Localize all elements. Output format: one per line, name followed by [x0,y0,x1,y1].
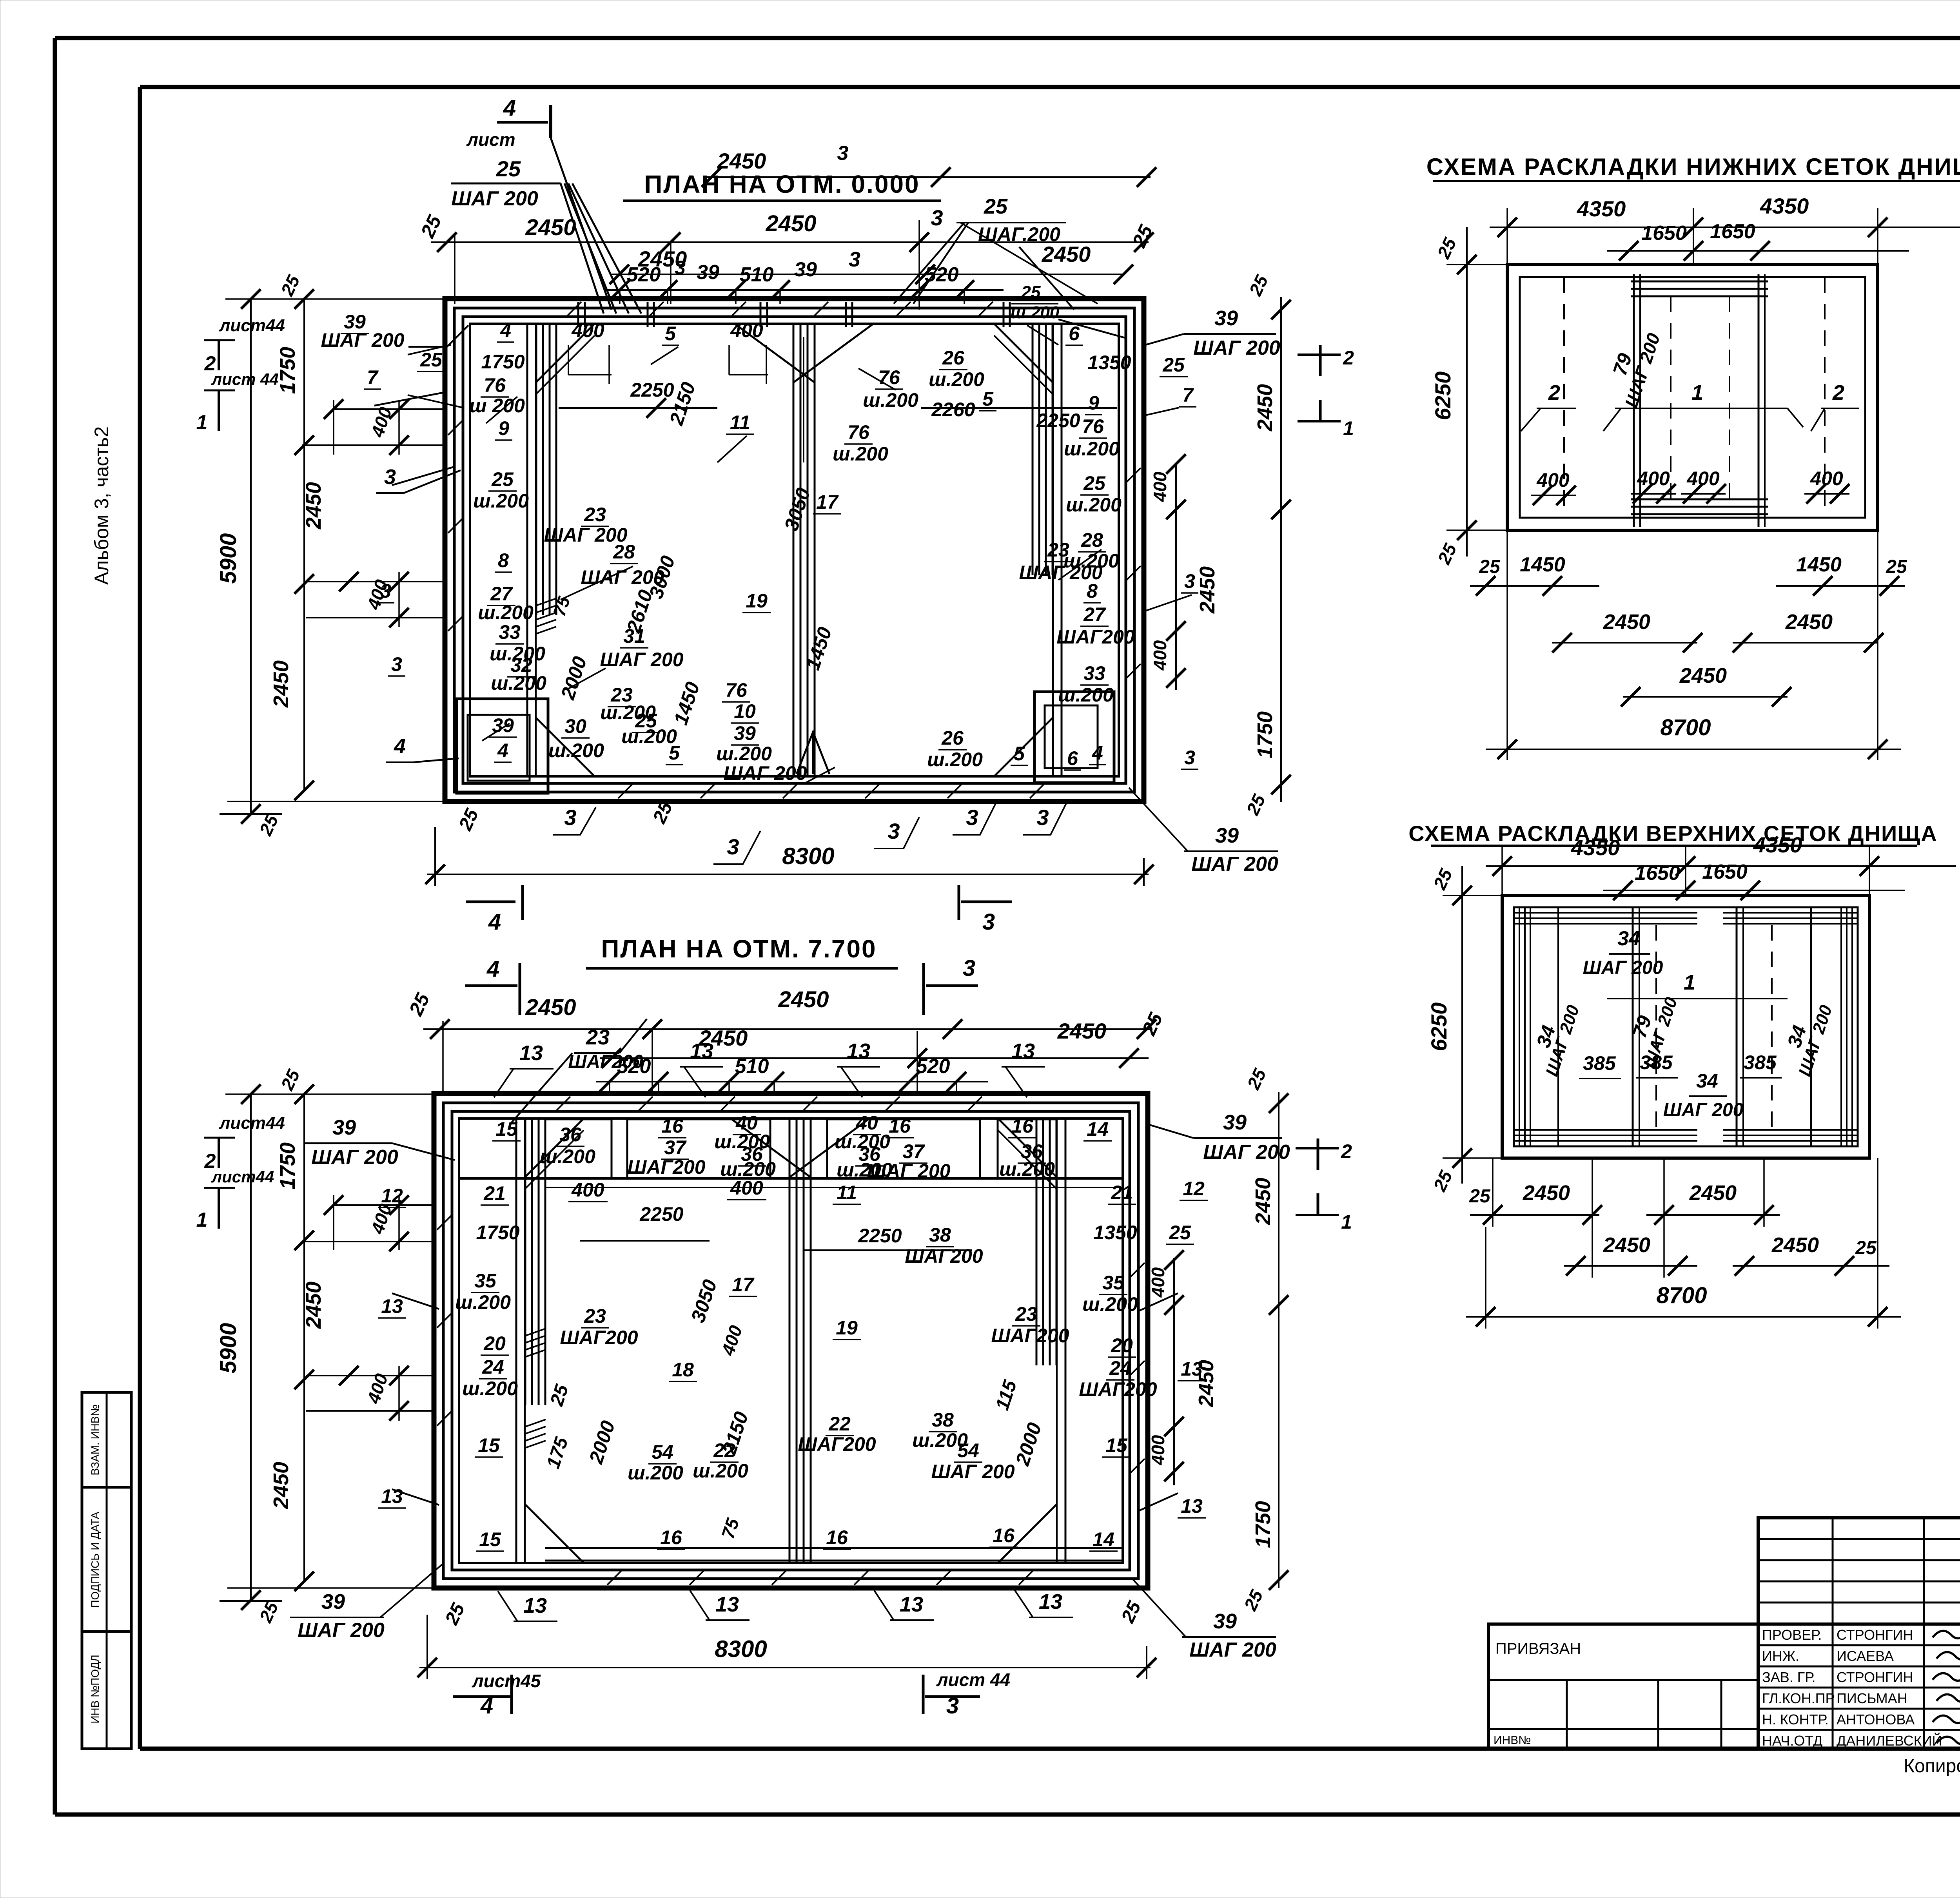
svg-text:ш.200: ш.200 [1058,684,1114,706]
scheme2 outer mesh [1502,896,1869,1158]
plan2 right interior wall [1036,1118,1056,1365]
svg-text:38: 38 [932,1409,954,1431]
svg-text:1750: 1750 [476,1222,519,1244]
svg-text:ш.200: ш.200 [1011,303,1060,322]
svg-text:5: 5 [1014,743,1025,765]
svg-text:1: 1 [1341,1211,1352,1233]
svg-text:5900: 5900 [216,1323,241,1373]
svg-text:1650: 1650 [1702,861,1748,883]
left attachment table [1488,1624,1758,1749]
svg-text:400: 400 [1686,468,1720,489]
svg-text:13: 13 [519,1041,543,1065]
plan1 dim row top B [610,221,1157,284]
svg-text:ш.200: ш.200 [693,1460,748,1482]
plan1 label 25 шаг.200 top-right [956,195,1098,304]
svg-text:ШАГ 200: ШАГ 200 [723,762,807,784]
svg-text:3: 3 [887,819,900,843]
svg-text:1750: 1750 [276,347,299,394]
plan2 overall height dim 5900 [216,1084,433,1626]
svg-text:2450: 2450 [1689,1181,1737,1205]
plan2 overall width dim 8300 [417,1615,1156,1679]
svg-text:25: 25 [491,468,514,490]
svg-text:25: 25 [1169,1222,1191,1244]
svg-text:2250: 2250 [639,1203,683,1225]
svg-text:5: 5 [665,323,676,344]
svg-text:2450: 2450 [1057,1019,1107,1043]
svg-text:2450: 2450 [269,1462,293,1509]
scheme2 mesh border bars [1514,907,1858,1146]
svg-text:23: 23 [584,1305,606,1327]
plan1 right dim chains [1150,272,1291,819]
svg-text:5900: 5900 [216,533,241,584]
svg-text:38: 38 [929,1224,951,1246]
svg-text:ИНЖ.: ИНЖ. [1762,1648,1799,1664]
signatures squiggles [1933,1627,1960,1744]
svg-text:ВЗАМ. ИНВ№: ВЗАМ. ИНВ№ [89,1404,101,1475]
svg-text:1: 1 [1343,417,1354,439]
plan1 left dim chain inner [269,272,325,800]
svg-text:2450: 2450 [1196,566,1219,614]
svg-text:26: 26 [942,347,965,369]
svg-text:ш.200: ш.200 [716,743,772,765]
svg-text:лист44: лист44 [211,1167,274,1186]
plan1 dim extension verticals top [455,220,964,310]
svg-text:2450: 2450 [1785,610,1833,634]
svg-text:39: 39 [1223,1111,1247,1134]
svg-text:12: 12 [1183,1178,1205,1200]
svg-text:4: 4 [500,319,511,341]
plan1 bottom-left room [457,699,548,793]
svg-text:2450: 2450 [1679,664,1727,687]
svg-text:15: 15 [479,1528,501,1550]
plan2 bottom labels row [441,1588,1145,1628]
plan2 left sheet reference marks [196,1113,285,1231]
svg-text:15: 15 [478,1434,500,1456]
plan2 rotated dims interior [543,1241,1046,1541]
svg-text:8700: 8700 [1656,1283,1707,1308]
svg-text:385: 385 [1583,1052,1616,1074]
plan1 label 39 шаг200 top-right [1058,306,1280,359]
svg-text:лист44: лист44 [219,316,285,335]
svg-text:24: 24 [1109,1357,1131,1379]
svg-text:24: 24 [482,1356,504,1378]
svg-text:ш.200: ш.200 [548,740,604,761]
svg-text:25: 25 [1855,1238,1877,1258]
svg-text:13: 13 [1181,1358,1203,1380]
plan1 dim row top C [604,248,1060,322]
svg-text:3: 3 [849,248,860,271]
svg-text:2250: 2250 [858,1225,902,1247]
plan2 left interior wall [525,1118,545,1405]
plan2 extra leaders [392,1019,1178,1511]
plan2 central wall [789,1118,811,1563]
left margin stamp boxes [82,1392,131,1749]
svg-text:15: 15 [495,1118,518,1140]
svg-text:ШАГ 200: ШАГ 200 [1019,562,1102,584]
svg-text:ШАГ 200: ШАГ 200 [1583,957,1663,978]
plan1 overall width dim 8300 [425,827,1154,886]
svg-text:54: 54 [652,1441,673,1463]
svg-text:5: 5 [982,388,994,410]
title block upper grid [1758,1518,1960,1624]
svg-text:20: 20 [1111,1334,1133,1356]
svg-text:1650: 1650 [1710,220,1755,243]
svg-text:12: 12 [381,1185,403,1207]
svg-text:2450: 2450 [1523,1181,1570,1205]
svg-text:22: 22 [828,1413,851,1435]
svg-text:ш.200: ш.200 [833,443,888,465]
svg-text:25: 25 [1886,557,1907,577]
plan2 top corridor wall [459,1178,1123,1187]
svg-text:26: 26 [941,727,964,749]
svg-text:4350: 4350 [1760,194,1809,218]
plan1 extra leader fan top-right [894,223,1074,310]
svg-text:2250: 2250 [1036,410,1080,431]
svg-text:400: 400 [730,1177,763,1199]
svg-text:23: 23 [1015,1303,1037,1325]
svg-text:8700: 8700 [1660,715,1711,740]
svg-text:3: 3 [391,653,402,675]
svg-text:1750: 1750 [1251,1501,1275,1548]
svg-text:ш.200: ш.200 [491,672,546,694]
plan2 dim row top B [600,1009,1167,1068]
plan2 section marks 2-1 right [1296,1138,1352,1233]
svg-text:54: 54 [957,1439,979,1461]
svg-text:ШАГ200: ШАГ200 [560,1327,638,1349]
svg-text:ШАГ 200: ШАГ 200 [1193,337,1280,359]
scheme2 bottom dim rows [1469,1158,1889,1278]
svg-text:13: 13 [847,1039,870,1063]
svg-text:25: 25 [420,349,443,371]
svg-text:400: 400 [1637,468,1670,489]
svg-text:5: 5 [669,742,680,764]
svg-text:16: 16 [660,1526,682,1548]
svg-text:ШАГ 200: ШАГ 200 [311,1146,398,1169]
svg-text:лист: лист [466,129,515,150]
svg-text:ШАГ200: ШАГ200 [905,1245,983,1267]
svg-text:3: 3 [837,142,849,165]
svg-text:520: 520 [627,263,661,286]
svg-text:ш.200: ш.200 [1082,1293,1138,1315]
svg-text:39: 39 [1213,1610,1237,1633]
svg-text:33: 33 [1083,662,1105,684]
plan1 left 400 dims [302,399,445,627]
scheme2 left dims [1426,865,1502,1195]
scheme2 labels [1532,927,1836,1120]
svg-text:ГЛ.КОН.ПР: ГЛ.КОН.ПР [1762,1690,1835,1706]
plan1 bottom-right room [1034,692,1114,783]
svg-text:2450: 2450 [302,482,325,529]
plan2 label underlines [378,1135,1208,1551]
svg-text:17: 17 [816,491,839,513]
svg-text:28: 28 [1081,529,1103,551]
svg-text:3: 3 [1184,747,1195,769]
svg-text:385: 385 [1640,1051,1673,1073]
plan2 dim row top C [596,1055,988,1091]
svg-text:6250: 6250 [1426,1002,1451,1051]
svg-text:1450: 1450 [1520,553,1565,576]
svg-text:3: 3 [931,205,943,230]
svg-text:76: 76 [725,679,748,701]
svg-text:лист44: лист44 [219,1113,285,1133]
svg-text:400: 400 [571,1179,604,1201]
svg-text:1750: 1750 [276,1142,299,1189]
scheme1 central mesh [1631,274,1768,527]
svg-text:6: 6 [1069,323,1080,344]
svg-text:СТРОНГИН: СТРОНГИН [1837,1669,1913,1685]
scheme1 left dims [1430,227,1507,567]
svg-text:8: 8 [498,549,509,571]
svg-text:2: 2 [1832,381,1844,404]
svg-text:25: 25 [496,156,521,181]
svg-text:25: 25 [1083,472,1106,494]
svg-text:ШАГ 200: ШАГ 200 [1189,1639,1276,1661]
svg-text:2450: 2450 [269,660,293,708]
svg-text:21: 21 [483,1182,506,1204]
svg-text:лист 44: лист 44 [211,370,279,388]
svg-text:19: 19 [836,1317,858,1339]
svg-text:400: 400 [1148,1435,1168,1465]
svg-text:520: 520 [925,263,959,286]
plan2 top 13/23 labels [494,1026,1045,1097]
svg-text:35: 35 [1102,1272,1125,1294]
svg-text:3: 3 [963,955,975,981]
svg-text:13: 13 [1011,1039,1035,1063]
svg-text:34: 34 [1696,1070,1718,1092]
svg-text:2450: 2450 [525,995,576,1020]
plan1 mesh A-symbol bottom [797,732,829,774]
svg-text:ИНВ№: ИНВ№ [1494,1734,1531,1747]
svg-text:76: 76 [878,366,900,388]
svg-text:ШАГ 200: ШАГ 200 [298,1619,385,1642]
plan1 interior labels group A [321,311,1195,784]
svg-text:лист45: лист45 [472,1671,541,1691]
svg-text:4: 4 [488,909,501,935]
svg-text:ШАГ200: ШАГ200 [798,1433,876,1455]
plan1 label underlines [341,334,1198,770]
plan2 label 39 шаг200 top-right [1149,1111,1290,1164]
svg-text:6250: 6250 [1430,372,1455,421]
svg-text:СТРОНГИН: СТРОНГИН [1837,1627,1913,1643]
svg-text:3: 3 [564,805,576,830]
svg-text:2: 2 [1343,347,1354,369]
svg-text:13: 13 [1039,1590,1062,1613]
svg-text:7: 7 [1182,384,1194,406]
svg-text:4: 4 [1092,742,1103,764]
svg-text:1750: 1750 [481,351,524,373]
svg-text:ШАГ200: ШАГ200 [568,1051,643,1072]
svg-text:СХЕМА РАСКЛАДКИ ВЕРХНИХ СЕТОК: СХЕМА РАСКЛАДКИ ВЕРХНИХ СЕТОК ДНИЩА [1408,821,1937,846]
svg-text:ПИСЬМАН: ПИСЬМАН [1837,1690,1907,1706]
svg-text:1350: 1350 [1093,1222,1137,1244]
svg-text:3: 3 [1036,805,1049,830]
plan1 overall height dim 5900 [216,289,447,839]
plan2 left dim chain inner [269,1066,325,1591]
svg-text:400: 400 [1150,640,1170,671]
svg-text:Н. КОНТР.: Н. КОНТР. [1762,1711,1829,1728]
plan2 bottom corridor wall [545,1548,1123,1561]
svg-text:ДАНИЛЕВСКИЙ: ДАНИЛЕВСКИЙ [1837,1732,1942,1749]
plan2 interior labels [381,1112,1205,1550]
plan1 label 39 шаг 200 bottom-right [1129,788,1278,876]
svg-text:30: 30 [564,715,586,737]
plan1 top wall opening symbols [578,302,1010,327]
svg-text:ШАГ 200: ШАГ 200 [544,524,627,546]
plan1 left interior wall [536,324,556,615]
svg-text:16: 16 [993,1525,1015,1546]
svg-text:ПОДПИСЬ И ДАТА: ПОДПИСЬ И ДАТА [89,1512,101,1608]
svg-text:39: 39 [332,1116,356,1139]
svg-text:13: 13 [690,1039,713,1063]
svg-text:76: 76 [484,374,506,396]
svg-text:3: 3 [1184,570,1195,592]
svg-text:2450: 2450 [1042,242,1091,266]
plan2 left column cell wall [516,1118,525,1563]
svg-text:13: 13 [381,1485,403,1507]
svg-text:3: 3 [946,1693,959,1719]
svg-text:ш.200: ш.200 [473,490,529,512]
svg-text:385: 385 [1744,1051,1777,1073]
svg-text:35: 35 [474,1270,497,1292]
svg-text:ШАГ 200: ШАГ 200 [451,187,538,210]
svg-text:13: 13 [381,1295,403,1317]
plan2 dim extension verticals top [443,1021,956,1093]
svg-text:13: 13 [1181,1495,1203,1517]
svg-text:ш.200: ш.200 [1064,438,1120,460]
svg-text:8300: 8300 [715,1636,767,1662]
svg-text:20: 20 [483,1332,506,1354]
svg-text:ШАГ 200: ШАГ 200 [931,1461,1014,1483]
svg-text:ШАГ 200: ШАГ 200 [1663,1100,1744,1120]
svg-text:ПЛАН НА ОТМ. 0.000: ПЛАН НА ОТМ. 0.000 [644,170,920,198]
svg-text:1: 1 [1691,381,1703,404]
svg-text:2450: 2450 [525,215,576,240]
svg-text:СХЕМА РАСКЛАДКИ НИЖНИХ СЕТОК Д: СХЕМА РАСКЛАДКИ НИЖНИХ СЕТОК ДНИЩА [1426,154,1960,180]
svg-text:ш.200: ш.200 [927,749,983,770]
svg-text:21: 21 [1111,1182,1133,1204]
svg-text:1450: 1450 [1796,553,1842,576]
svg-text:39: 39 [1214,306,1238,330]
svg-text:1350: 1350 [1087,352,1131,373]
svg-text:13: 13 [715,1593,739,1616]
svg-text:2450: 2450 [765,211,816,236]
svg-text:4: 4 [394,734,406,758]
scheme2 top dims [1486,832,1956,900]
plan1 section mark 4 top [466,95,551,150]
plan2 bottom section marks [453,1670,1010,1719]
svg-text:1: 1 [196,411,208,434]
svg-text:НАЧ.ОТД: НАЧ.ОТД [1762,1733,1822,1749]
title block signature table [1758,1624,1960,1749]
svg-text:400: 400 [571,319,604,341]
svg-text:37: 37 [902,1140,925,1162]
plan2 outer wall [434,1093,1148,1588]
svg-text:11: 11 [730,412,750,433]
svg-text:520: 520 [916,1055,950,1078]
plan1 dim row top A [416,205,1154,252]
plan1 outer wall [445,299,1144,801]
svg-text:14: 14 [1087,1118,1109,1140]
svg-text:400: 400 [730,319,763,341]
plan2 label 39 шаг 200 bottom-left [290,1564,443,1642]
plan2 corner haunches [525,1118,1057,1563]
plan1 left side labels with leaders [374,392,461,762]
plan1 inner dim lines [559,337,1117,462]
svg-text:400: 400 [1148,1267,1168,1298]
svg-text:2450: 2450 [1253,384,1277,431]
svg-text:1650: 1650 [1635,862,1680,885]
svg-text:39: 39 [794,258,817,281]
svg-text:ш.200: ш.200 [863,389,918,411]
svg-text:ШАГ 200: ШАГ 200 [321,329,404,351]
scheme1 outer mesh [1507,265,1878,530]
svg-text:400: 400 [1150,471,1170,502]
svg-text:4350: 4350 [1577,196,1626,221]
svg-text:25: 25 [984,195,1008,218]
svg-text:ШАГ200: ШАГ200 [1056,626,1134,648]
svg-text:6: 6 [1067,747,1078,769]
svg-text:25: 25 [1162,354,1185,376]
svg-text:16: 16 [1011,1115,1034,1137]
svg-text:14: 14 [1093,1528,1114,1550]
svg-text:27: 27 [1083,604,1106,625]
plan1 hatch block left wall end [536,594,574,634]
svg-text:13: 13 [900,1593,923,1616]
svg-text:2450: 2450 [302,1282,325,1329]
svg-text:3: 3 [966,805,978,830]
plan1 leader lines [408,325,1192,784]
svg-text:400: 400 [1536,469,1570,491]
scheme2 dim 8700 [1466,1158,1901,1329]
svg-text:25: 25 [1021,283,1041,302]
svg-text:76: 76 [848,421,870,443]
svg-text:4: 4 [497,740,508,761]
plan2 dim row top A [405,987,1156,1039]
scheme1 bottom dims 400 [1531,468,1849,505]
svg-text:ш.200: ш.200 [540,1146,595,1167]
plan1 section marks 2-2 right [1298,345,1354,439]
svg-text:ЗАВ. ГР.: ЗАВ. ГР. [1762,1669,1815,1685]
svg-text:3: 3 [727,834,739,859]
svg-text:ш.200: ш.200 [929,368,984,390]
svg-text:ШАГ200: ШАГ200 [991,1325,1069,1347]
svg-text:4: 4 [486,956,499,982]
svg-text:3: 3 [675,257,686,279]
svg-text:9: 9 [498,417,509,439]
svg-text:2: 2 [1548,381,1560,404]
scheme1 dim 2450 row1 [1552,610,1884,653]
scheme1 bottom dim 1450 rows [1470,553,1907,596]
svg-text:4350: 4350 [1753,832,1802,857]
svg-text:2450: 2450 [778,987,829,1012]
svg-text:ш.200: ш.200 [455,1291,511,1313]
svg-text:11: 11 [837,1182,857,1204]
plan2 wall rebar tick marks [437,1097,1145,1585]
svg-text:ШАГ 200: ШАГ 200 [600,649,683,671]
plan2 right column cell wall [1057,1118,1065,1563]
plan2 section marks top [465,955,978,1015]
plan1 bottom section marks [466,885,1012,935]
svg-text:15: 15 [1105,1434,1128,1456]
svg-text:ПЛАН НА ОТМ. 7.700: ПЛАН НА ОТМ. 7.700 [601,935,877,963]
svg-text:1650: 1650 [1641,222,1687,245]
plan2 label 39 шаг200 top-left [304,1116,455,1169]
svg-text:8300: 8300 [782,843,834,869]
svg-text:10: 10 [734,700,756,722]
svg-text:37: 37 [664,1137,687,1158]
plan1 dim row top 0 [702,142,1156,187]
svg-text:25: 25 [1479,557,1501,577]
